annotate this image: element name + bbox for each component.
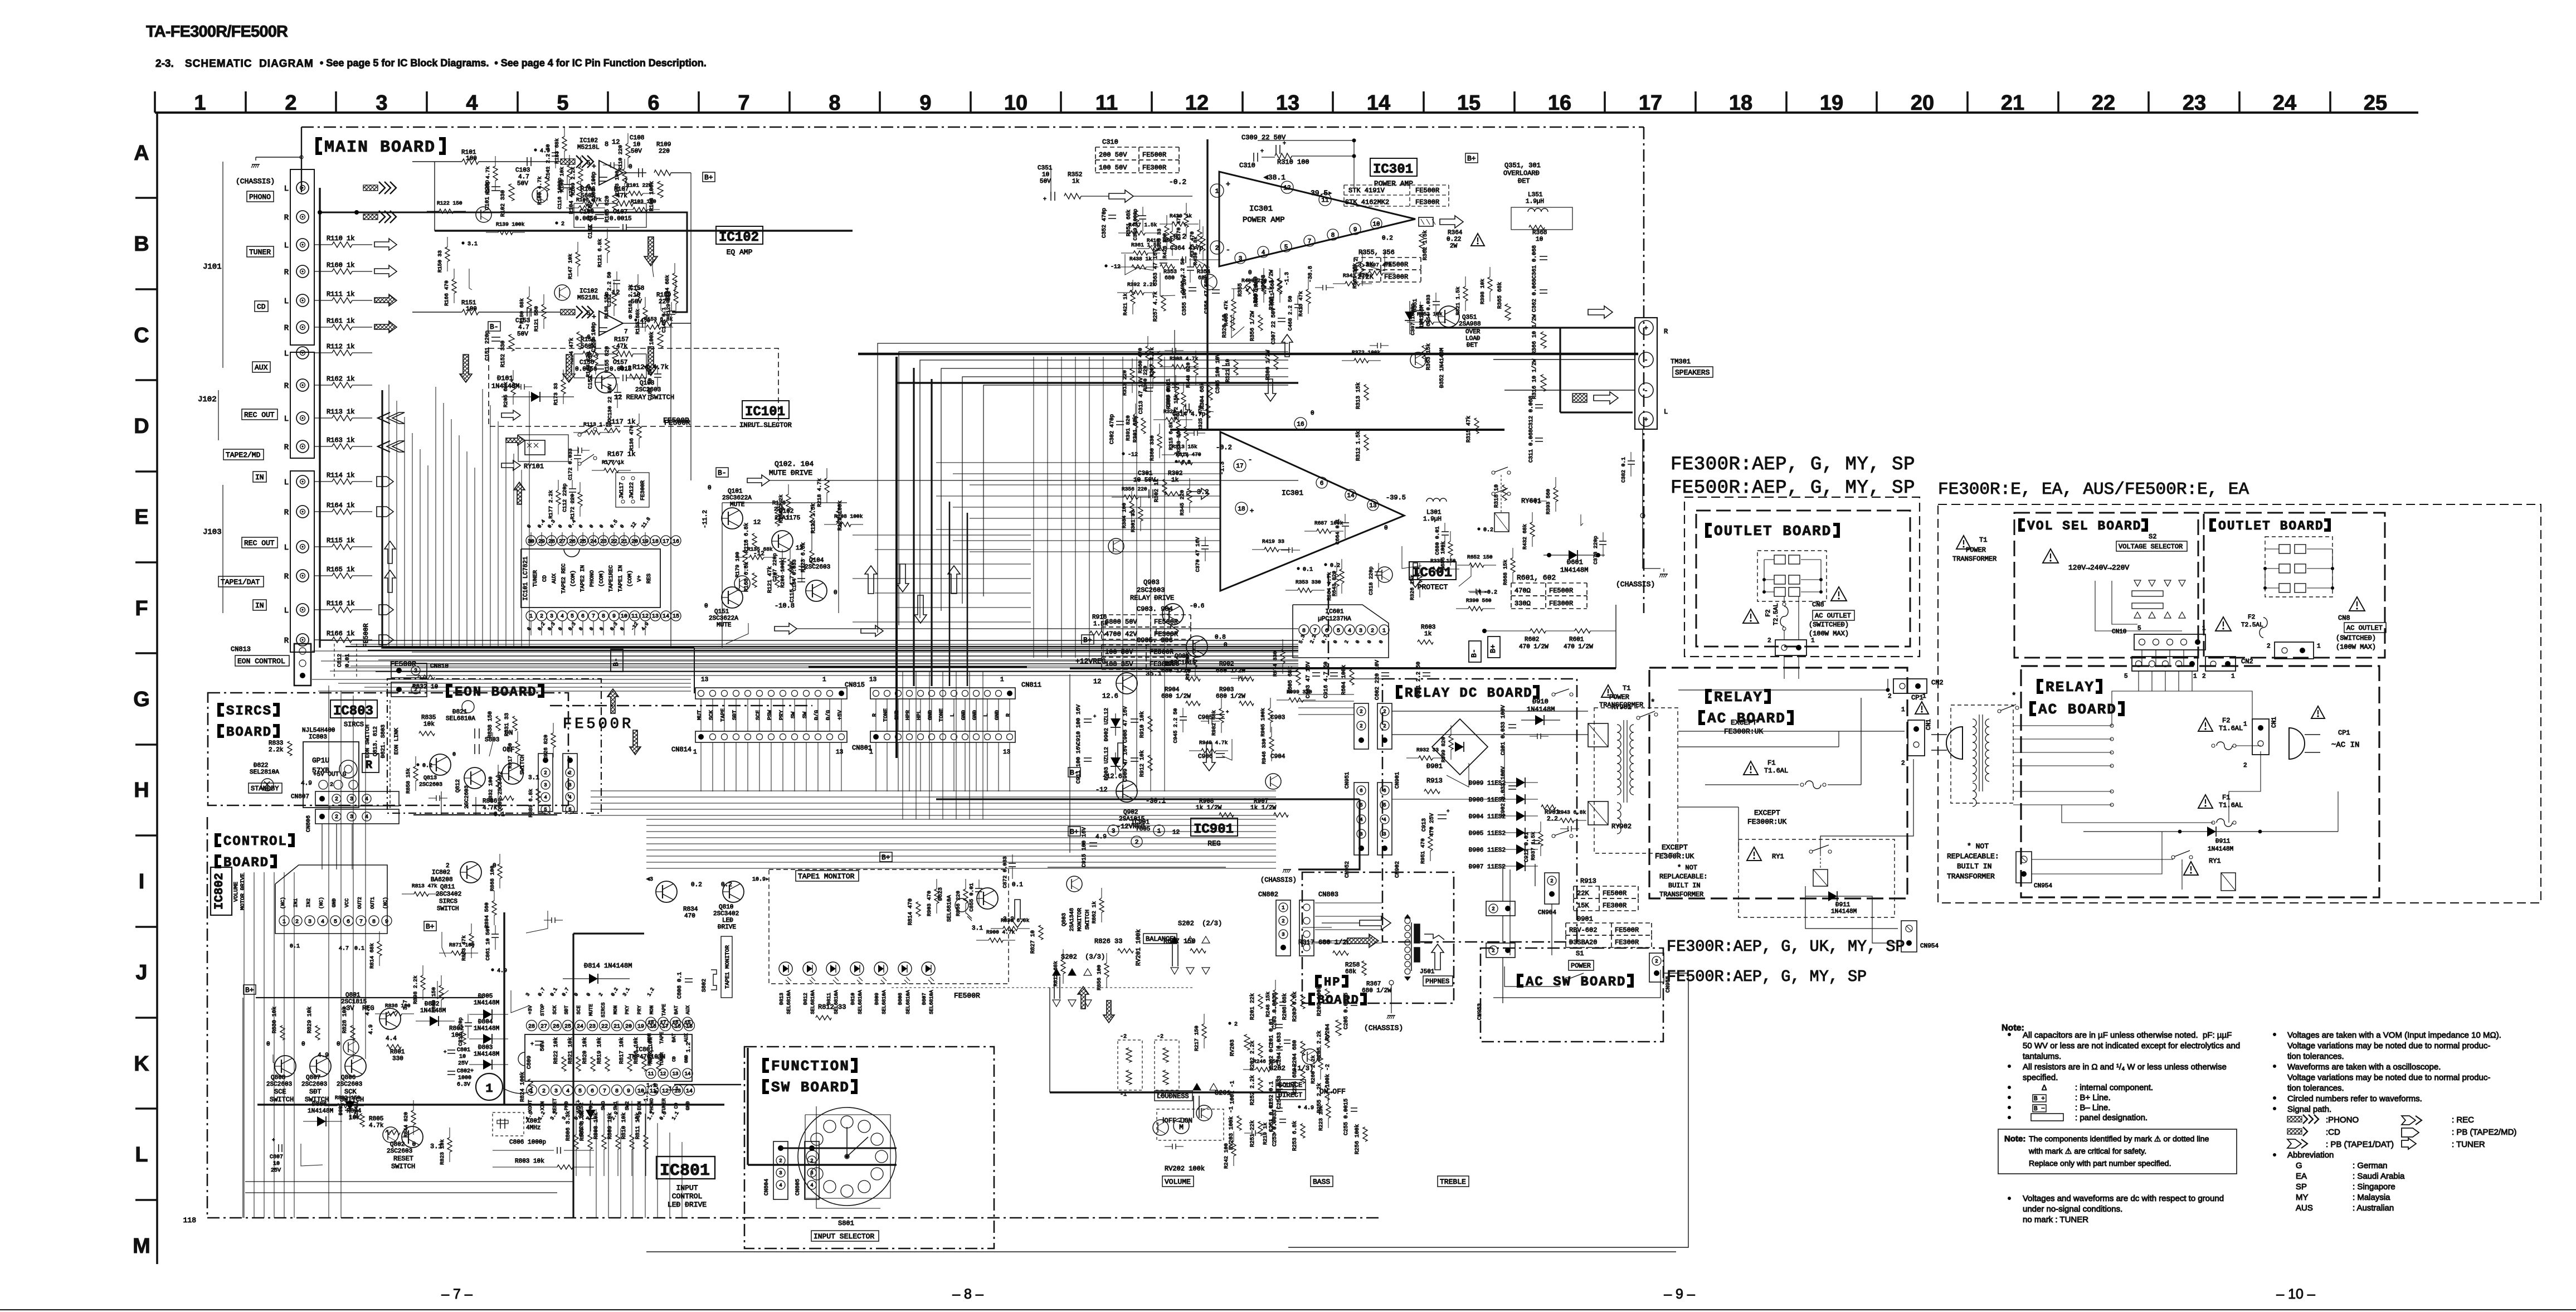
svg-text:CN952: CN952 (1345, 861, 1351, 878)
svg-text:27: 27 (540, 1024, 547, 1030)
svg-text:C468 2.2 50: C468 2.2 50 (1287, 295, 1293, 331)
wires tone to CN802 (646, 819, 1276, 820)
svg-text:8: 8 (1331, 232, 1335, 239)
svg-text:CP1: CP1 (1911, 694, 1924, 702)
AC plug CP1 (left) (1946, 727, 1963, 759)
ac sw wires (1504, 966, 1560, 987)
relay dc wires (1392, 711, 1588, 712)
svg-text:Ð352 1N4148M: Ð352 1N4148M (1439, 348, 1445, 388)
svg-text:0.1: 0.1 (1303, 567, 1313, 573)
svg-text:2: 2 (1360, 723, 1362, 729)
svg-text:R326 15k: R326 15k (1409, 575, 1415, 600)
svg-text:XIN: XIN (540, 1101, 546, 1110)
svg-text:R106 47k: R106 47k (576, 197, 602, 203)
B- designation box (488, 322, 500, 331)
svg-text:R115 1k: R115 1k (327, 537, 354, 545)
monitor region box (869, 852, 1036, 858)
svg-text:R254 680: R254 680 (1292, 1068, 1298, 1095)
loudness heavy wire (1050, 1091, 1287, 1094)
svg-text:RV202 100k: RV202 100k (1165, 1165, 1205, 1173)
svg-text:CN2: CN2 (2241, 658, 2253, 665)
svg-text:CD: CD (542, 575, 548, 582)
svg-text:(CHASSIS): (CHASSIS) (1260, 876, 1297, 884)
svg-text:470 1/2W: 470 1/2W (1564, 644, 1593, 650)
svg-text:Ð803: Ð803 (478, 1044, 493, 1051)
svg-text:OUTLET BOARD: OUTLET BOARD (1714, 523, 1832, 540)
AC plug CP1 right (2289, 728, 2305, 759)
selector routing verticals (388, 385, 389, 648)
speaker heavy wires (1415, 327, 1635, 328)
svg-text:R364: R364 (1448, 230, 1463, 236)
svg-text:FE500R: FE500R (1549, 587, 1573, 595)
svg-text:R251 22k: R251 22k (1249, 1120, 1256, 1147)
svg-text:FE500R: FE500R (362, 623, 370, 647)
IC101 fan wires (530, 532, 532, 546)
regulator transistor Q901 (1116, 673, 1137, 694)
svg-text:M: M (133, 1235, 150, 1258)
RELAY DC BOARD outline (1382, 679, 1577, 942)
outlet connector right (2275, 642, 2314, 659)
svg-text:2: 2 (1215, 245, 1219, 252)
svg-text:GNÐ: GNÐ (684, 1055, 689, 1063)
svg-text:R: R (284, 508, 289, 517)
svg-text:VOLTAGE SELECTOR: VOLTAGE SELECTOR (2119, 543, 2183, 551)
svg-text:R109: R109 (656, 142, 671, 148)
svg-text:no mark : TUNER: no mark : TUNER (2023, 1215, 2088, 1224)
transistor Q812 (464, 767, 485, 789)
outlet fuse clips left (1774, 555, 1785, 564)
svg-text:M5218L: M5218L (577, 144, 600, 151)
svg-text:(SWITCHEÐ): (SWITCHEÐ) (2336, 634, 2376, 642)
svg-text:AUX: AUX (255, 363, 268, 372)
svg-text:with mark ⚠ are critical for s: with mark ⚠ are critical for safety. (2028, 1147, 2146, 1156)
svg-text:1: 1 (194, 91, 206, 115)
svg-text:SW: SW (802, 712, 809, 718)
svg-text:2: 2 (542, 1089, 546, 1095)
svg-text:R321 10: R321 10 (1225, 359, 1231, 382)
LED Ð810 (850, 962, 864, 975)
R mark box (362, 754, 379, 772)
chassis below HP (1389, 980, 1394, 985)
top ruler line (155, 111, 2418, 114)
svg-text:3.1: 3.1 (468, 241, 478, 247)
svg-text:R833: R833 (269, 740, 283, 747)
connector CN1 (left) (1908, 720, 1925, 756)
svg-text:4.9: 4.9 (1181, 460, 1191, 466)
svg-text:TAPE: TAPE (659, 1032, 665, 1044)
svg-text:IN2: IN2 (306, 898, 311, 907)
svg-text:(100W MAX): (100W MAX) (1809, 630, 1849, 638)
svg-text:+: + (1283, 141, 1286, 147)
SIRCS wires (329, 806, 330, 809)
svg-text:13: 13 (1276, 91, 1299, 115)
transistor Q151 (722, 587, 743, 608)
svg-text:+: + (1644, 324, 1648, 332)
svg-text:2: 2 (295, 919, 299, 925)
svg-text:10: 10 (1372, 221, 1380, 228)
svg-text:IC803: IC803 (309, 734, 327, 741)
svg-text:PHONO: PHONO (249, 193, 271, 201)
RELAY AC BOARD (right) label (2037, 679, 2043, 694)
svg-text:4: 4 (1262, 250, 1265, 256)
svg-text:: TUNER: : TUNER (2452, 1140, 2485, 1149)
resistor R101 100 (412, 161, 462, 162)
svg-text:1k 1/2W: 1k 1/2W (1250, 805, 1277, 812)
svg-text:ÐET: ÐET (1467, 342, 1478, 349)
svg-text:-: - (1644, 387, 1648, 395)
svg-text:R253 6.8k: R253 6.8k (1292, 1121, 1298, 1151)
output arrow (1419, 217, 1433, 226)
svg-text:1: 1 (1382, 628, 1386, 634)
label REC OUT J102 (242, 409, 277, 420)
svg-text:15: 15 (1457, 91, 1481, 115)
IC801 top pins (527, 1021, 537, 1031)
MAIN BOARD outline left lower edge (207, 817, 208, 1218)
svg-text:B+: B+ (426, 922, 435, 931)
svg-text:R858 15k: R858 15k (405, 768, 411, 794)
svg-text:SEL6810A: SEL6810A (446, 716, 475, 722)
svg-text:R321 1.5k: R321 1.5k (1455, 286, 1461, 315)
svg-text:R: R (1664, 328, 1668, 336)
svg-text:7: 7 (624, 329, 628, 336)
svg-text:R252 2.2k: R252 2.2k (1249, 1075, 1256, 1105)
svg-text:CD: CD (257, 303, 266, 311)
svg-text:12: 12 (612, 138, 620, 146)
svg-text:R807 3.3k: R807 3.3k (579, 1111, 586, 1141)
svg-text:R806 3.3k: R806 3.3k (565, 1111, 572, 1141)
svg-text:D: D (134, 415, 149, 438)
svg-text:RV203: RV203 (1230, 1039, 1236, 1056)
svg-text:C205 0.0015: C205 0.0015 (1343, 993, 1350, 1029)
svg-text:R602: R602 (1525, 636, 1539, 643)
jack pin 4 (296, 265, 309, 278)
svg-text:1.1: 1.1 (669, 1086, 679, 1092)
label CD (255, 301, 268, 312)
svg-text:15K: 15K (1577, 902, 1589, 910)
B- symbol in note (2033, 1105, 2046, 1112)
B+ symbol in note (2033, 1095, 2046, 1102)
IC301 pin 17 (1234, 459, 1246, 472)
svg-text:R437 1.5k: R437 1.5k (1128, 222, 1157, 228)
svg-text:R810 10k: R810 10k (621, 1112, 627, 1139)
svg-text:C378 220p: C378 220p (1593, 536, 1599, 565)
IC803 designation label (330, 700, 377, 718)
svg-text:SW2: SW2 (625, 1101, 630, 1110)
svg-text:C310: C310 (1102, 138, 1118, 146)
svg-text:Ð3SBA20: Ð3SBA20 (1569, 939, 1597, 946)
svg-text:C382 0.1: C382 0.1 (1620, 457, 1627, 483)
svg-text:2SC2603: 2SC2603 (337, 1081, 362, 1088)
svg-text:B+: B+ (704, 173, 713, 182)
svg-text:L: L (1664, 408, 1668, 416)
svg-text:R162 1k: R162 1k (327, 375, 354, 383)
svg-text:F1: F1 (1767, 759, 1775, 767)
svg-text:RY1: RY1 (1772, 853, 1784, 861)
svg-text:R153 6.8k: R153 6.8k (644, 316, 673, 322)
svg-text:1N4148M: 1N4148M (474, 1026, 499, 1032)
svg-text:0: 0 (834, 590, 837, 596)
svg-text:OUT1: OUT1 (370, 897, 376, 909)
svg-text:R113 1.5k: R113 1.5k (583, 421, 612, 427)
svg-text:R163 1k: R163 1k (327, 436, 354, 444)
svg-text:R: R (284, 572, 289, 581)
svg-text:CN901: CN901 (1395, 772, 1401, 789)
svg-text:FE300R: FE300R (1142, 164, 1166, 172)
svg-text:– 10 –: – 10 – (2276, 1286, 2315, 1302)
svg-text:LEÐ: LEÐ (722, 917, 733, 924)
relay RY601 coil (1494, 513, 1509, 532)
svg-text:1k: 1k (1072, 178, 1080, 185)
svg-text:-: - (1226, 246, 1230, 254)
svg-text:R: R (284, 636, 289, 645)
svg-text:RELAY: RELAY (2046, 679, 2095, 696)
jack pin 3 (296, 239, 309, 251)
svg-text:10 50V: 10 50V (1133, 477, 1156, 484)
wires across centre valley (853, 534, 1031, 536)
svg-text:2SC3622A: 2SC3622A (709, 615, 738, 622)
svg-text:Q903: Q903 (1143, 579, 1160, 586)
TAPE1 MONITOR box label (796, 871, 859, 881)
svg-text:R365 68k: R365 68k (1497, 282, 1503, 309)
capacitor C812 (334, 644, 335, 677)
svg-text:R982 68k: R982 68k (1211, 710, 1217, 736)
svg-text:R: R (366, 759, 372, 772)
svg-text:FE300R: FE300R (1615, 939, 1639, 946)
svg-text:L301: L301 (1426, 509, 1442, 516)
svg-text:specified.: specified. (2023, 1073, 2058, 1082)
svg-text:OVER: OVER (1465, 329, 1481, 336)
svg-text:*: * (2012, 692, 2016, 701)
signal arrow into op-amp (561, 159, 575, 164)
svg-text:CN1: CN1 (2271, 717, 2278, 728)
svg-text:3: 3 (1383, 832, 1386, 837)
svg-text:CN810: CN810 (430, 663, 449, 670)
svg-text:K: K (134, 1052, 149, 1076)
svg-text:FE300R: FE300R (640, 480, 646, 500)
svg-text:FE500R: FE500R (1142, 151, 1166, 159)
switch contacts FE500R (578, 433, 581, 436)
transistor Q101 (722, 508, 743, 529)
svg-text:2: 2 (2243, 762, 2247, 769)
svg-text:CONTROL: CONTROL (223, 834, 288, 849)
arrows near relay cluster (501, 410, 520, 420)
svg-text:Q813: Q813 (423, 775, 437, 781)
transistor Q901 relay (1186, 636, 1207, 657)
bold feed to CN811 (809, 666, 1027, 668)
svg-text:POWER: POWER (1609, 693, 1629, 701)
svg-text:IC901: IC901 (1194, 822, 1234, 837)
svg-text:L: L (983, 713, 990, 717)
svg-text:IC102: IC102 (719, 230, 759, 245)
connector CN904 (1545, 873, 1559, 904)
svg-text:26: 26 (553, 1024, 559, 1030)
speaker arrows (1588, 306, 1613, 318)
svg-text:2: 2 (1234, 1022, 1238, 1028)
svg-text:SIRCS: SIRCS (601, 1002, 606, 1017)
B+ box power amp (1465, 153, 1478, 163)
rec out arrows (378, 412, 390, 424)
svg-text:MOTOR ÐRIVE: MOTOR ÐRIVE (240, 873, 246, 910)
svg-text:EXCEPT: EXCEPT (1754, 809, 1780, 817)
svg-text:R: R (284, 443, 289, 452)
svg-text:2SC2603: 2SC2603 (301, 1081, 327, 1088)
svg-text:• See page 5 for IC Block Diag: • See page 5 for IC Block Diagrams. • Se… (320, 57, 707, 69)
svg-text:R398 10k: R398 10k (1479, 279, 1486, 304)
svg-text:C116 1000p: C116 1000p (557, 177, 563, 209)
control board left vertical wires (244, 872, 245, 1218)
svg-text:2SA1348: 2SA1348 (1069, 908, 1075, 931)
svg-text:680 1/2W: 680 1/2W (1161, 693, 1191, 700)
svg-text:SÐT: SÐT (564, 1005, 569, 1014)
op-amp IC102 (599, 161, 623, 185)
svg-text:CP1: CP1 (2338, 729, 2350, 737)
svg-text:0: 0 (1248, 270, 1252, 276)
svg-text:IC102: IC102 (580, 138, 598, 144)
svg-text:-0.2: -0.2 (1169, 178, 1186, 186)
relay ac left interior wires (1678, 689, 1888, 691)
svg-text:+3V: +3V (528, 1005, 533, 1014)
svg-text:INPUT SLECTOR: INPUT SLECTOR (739, 421, 792, 429)
svg-text:Ð904 11ES2: Ð904 11ES2 (1469, 814, 1506, 820)
IC301 upper triangle (1219, 172, 1415, 266)
svg-text:STOP: STOP (540, 1004, 546, 1016)
jack pin 10 (296, 440, 309, 453)
svg-text:4.9: 4.9 (301, 780, 312, 787)
svg-text:FE500R:AEP, G, MY, SP: FE500R:AEP, G, MY, SP (1671, 478, 1915, 499)
svg-text:IC802: IC802 (432, 869, 450, 876)
left ruler line (156, 113, 158, 1264)
svg-text:3: 3 (350, 814, 353, 820)
svg-text:6: 6 (647, 91, 659, 115)
svg-text:R390 560: R390 560 (1466, 597, 1492, 604)
svg-text:17: 17 (660, 1020, 666, 1026)
mute arrow (747, 475, 770, 486)
svg-text:T1: T1 (1979, 536, 1987, 544)
svg-text:R256 100k: R256 100k (1354, 1124, 1361, 1154)
svg-text:R150 2.2k: R150 2.2k (778, 494, 784, 523)
chassis ground near jacks (252, 164, 260, 165)
svg-text:CN2: CN2 (1931, 679, 1944, 687)
svg-text:R902: R902 (1219, 661, 1234, 668)
svg-text:BUILT IN: BUILT IN (1668, 882, 1701, 890)
bridge rectifier D901 (1432, 719, 1488, 775)
svg-text:TRANSFORMER: TRANSFORMER (1947, 872, 1995, 881)
svg-text:R219 1k: R219 1k (1262, 1123, 1268, 1145)
svg-text:POWER: POWER (1966, 546, 1986, 554)
svg-text:R101 220: R101 220 (626, 182, 652, 188)
svg-text:R123 6.8k: R123 6.8k (800, 542, 807, 572)
svg-text:+: + (444, 1049, 446, 1055)
svg-text:1.2: 1.2 (686, 1042, 692, 1052)
transistor Q102 (772, 531, 793, 552)
svg-text:C901 0.033 100V: C901 0.033 100V (1501, 705, 1507, 755)
svg-text:R917 150: R917 150 (507, 743, 513, 769)
svg-text:6: 6 (1383, 788, 1386, 794)
svg-text:R109 2.2k: R109 2.2k (570, 167, 576, 196)
svg-text:M5218L: M5218L (577, 295, 600, 302)
connector CN954 right (2016, 852, 2032, 883)
svg-text:1: 1 (485, 1082, 493, 1096)
svg-text:ÐRIVE: ÐRIVE (718, 924, 736, 931)
svg-text:Q813. 812: Q813. 812 (373, 726, 379, 756)
svg-text:SWITCH: SWITCH (520, 755, 526, 775)
svg-text:4.9: 4.9 (497, 968, 507, 974)
svg-text:C301: C301 (1138, 470, 1153, 477)
svg-text:(COM): (COM) (570, 570, 577, 587)
svg-text:EON: EON (637, 1101, 642, 1110)
svg-text:15: 15 (673, 614, 679, 620)
svg-text:R903: R903 (1219, 687, 1234, 693)
svg-text:R866 220: R866 220 (955, 891, 961, 916)
connector CN802 vertical (1276, 900, 1291, 956)
svg-text:1: 1 (1000, 677, 1004, 683)
svg-text:TRANSFORMER: TRANSFORMER (1599, 701, 1643, 709)
svg-text:R356 220: R356 220 (1122, 486, 1147, 492)
svg-text:24: 24 (2273, 91, 2296, 115)
svg-text:12: 12 (1093, 678, 1101, 686)
svg-text:R809 10k: R809 10k (607, 1112, 613, 1139)
motor M (1173, 1118, 1189, 1134)
svg-text:R157: R157 (614, 337, 629, 343)
svg-text:Replace only with part number: Replace only with part number specified. (2029, 1159, 2171, 1168)
svg-text:R844 820: R844 820 (403, 1112, 409, 1138)
B+ box monitor (880, 852, 892, 862)
transistor Q811 SIRCS switch (424, 921, 436, 931)
svg-text:: B– Line.: : B– Line. (2075, 1103, 2110, 1112)
svg-text:10: 10 (1536, 236, 1543, 243)
svg-text:0.2: 0.2 (1382, 235, 1393, 242)
svg-text:C908 47 16V: C908 47 16V (1123, 706, 1129, 743)
svg-text:CN902: CN902 (1395, 861, 1401, 878)
svg-text:-30.1: -30.1 (1146, 797, 1166, 805)
svg-text:CN802: CN802 (1258, 891, 1278, 898)
svg-text:R803 10k: R803 10k (515, 1158, 544, 1165)
svg-text:1N4148M: 1N4148M (1560, 566, 1588, 574)
svg-text:REC OUT: REC OUT (244, 411, 275, 419)
phono R signal arrow (363, 214, 378, 220)
svg-text:2SA988: 2SA988 (1459, 321, 1481, 328)
svg-text:R135 68k: R135 68k (747, 546, 773, 552)
midfield vertical bus wires (1033, 357, 1034, 658)
svg-text:L351: L351 (1528, 192, 1543, 198)
svg-text:C601 2.2 50: C601 2.2 50 (1416, 662, 1422, 698)
svg-text:8: 8 (829, 91, 840, 115)
svg-text:G: G (2296, 1161, 2302, 1170)
svg-text:14: 14 (663, 614, 669, 620)
svg-text:0: 0 (629, 314, 632, 321)
svg-text:IN: IN (255, 601, 264, 610)
svg-text:C307 22 50V: C307 22 50V (1271, 308, 1277, 344)
svg-text:tion tolerances.: tion tolerances. (2287, 1083, 2344, 1093)
svg-text:B: B (134, 232, 149, 256)
svg-text:FE300R:UK: FE300R:UK (1655, 852, 1694, 861)
svg-text:R242 100: R242 100 (1223, 1143, 1229, 1169)
AC SW BOARD outline (1481, 948, 1663, 1042)
svg-text:3.1: 3.1 (528, 775, 539, 781)
svg-text:R304 68k: R304 68k (1199, 382, 1206, 409)
svg-text:SCHEMATIC DIAGRAM: SCHEMATIC DIAGRAM (185, 58, 314, 70)
svg-text:50V: 50V (517, 331, 528, 338)
svg-text:0.2: 0.2 (620, 365, 632, 372)
svg-text:R898 2.2k: R898 2.2k (412, 975, 418, 1004)
tuner arrows (374, 239, 397, 250)
svg-text:C809: C809 (527, 1056, 533, 1069)
OUTLET BOARD (right) label (2209, 518, 2216, 532)
svg-text:12: 12 (1172, 829, 1180, 836)
svg-text:C185 10 50V: C185 10 50V (647, 365, 653, 400)
svg-text:R173 33: R173 33 (553, 383, 559, 405)
svg-text:Ð808: Ð808 (898, 993, 903, 1005)
